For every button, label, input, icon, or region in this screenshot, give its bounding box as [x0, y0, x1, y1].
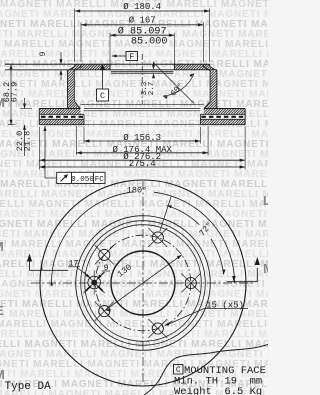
tick for dim 9: [55, 63, 67, 65]
bore circle dia 85: [111, 251, 175, 315]
dim line dia 176.4: [76, 152, 208, 154]
svg-text:2.7: 2.7: [148, 82, 156, 96]
ring outer edge left: [38, 109, 40, 125]
svg-text:F: F: [129, 53, 134, 62]
dim 9 lower stem: [60, 72, 62, 80]
svg-text:85.000: 85.000: [131, 37, 168, 48]
leader 15x5: [167, 309, 205, 326]
svg-text:FC: FC: [95, 176, 105, 184]
svg-text:130: 130: [116, 262, 134, 279]
svg-text:M: M: [0, 367, 5, 382]
runout symbol: [61, 175, 68, 182]
section centerline: [141, 54, 143, 104]
svg-text:Ø 156.3: Ø 156.3: [123, 133, 161, 143]
hatch ring top plate left: [40, 109, 41, 110]
ring bottom face left: [39, 124, 84, 126]
svg-text:Ø 167: Ø 167: [129, 16, 156, 26]
ext dia156.3 right: [199, 127, 201, 144]
leader 17: [77, 268, 88, 277]
datum box C: [97, 89, 109, 101]
vertical centerline: [142, 181, 144, 384]
dim line dia 156.3: [84, 140, 200, 142]
dim arc 72deg: [211, 239, 224, 275]
hat wall outer left: [68, 64, 75, 108]
tick 22 top: [20, 108, 32, 110]
svg-text:60°: 60°: [169, 82, 185, 99]
vent top left: [39, 113, 84, 115]
ext dia176.4 left: [75, 126, 77, 155]
svg-text:Type DA: Type DA: [5, 381, 52, 393]
hatch hat wall right: [210, 71, 211, 72]
svg-text:Ø 180.4: Ø 180.4: [123, 2, 161, 12]
horizontal centerline: [31, 282, 255, 284]
svg-text:L: L: [263, 193, 268, 208]
dim 3.3 upper stem: [153, 62, 155, 65]
hatch ring bottom plate left: [40, 120, 41, 121]
svg-text:15 (x5): 15 (x5): [206, 301, 244, 311]
ext line 72deg from bolt hole: [160, 197, 171, 232]
vent bottom left: [39, 118, 84, 120]
ring bottom face right: [200, 124, 245, 126]
hatch ring top plate right: [204, 109, 205, 110]
vent inner edge left: [83, 114, 85, 124]
section arrow left: [29, 261, 31, 270]
hatch ring bottom plate right: [200, 120, 201, 121]
vent top right: [200, 113, 245, 115]
far-side hat foot edge: [81, 103, 204, 105]
svg-text:M: M: [0, 239, 4, 254]
far-side edge line 1: [111, 71, 173, 73]
ext dia176.4 right: [207, 126, 209, 155]
underline 17: [68, 266, 80, 268]
dim 22 lower stem: [24, 125, 26, 156]
bore left edge (dia 85): [109, 64, 111, 70]
dim line dia 167: [81, 24, 203, 26]
svg-text:21.8: 21.8: [23, 131, 33, 151]
ext line dia 180.4 left: [74, 9, 76, 63]
dim line 275.4: [39, 166, 245, 168]
locating hole dia 9 with dia 17 spotface: [88, 276, 101, 289]
dim line dia 180.4: [75, 10, 210, 12]
vent ribs right: [201, 116, 243, 118]
svg-text:67.9: 67.9: [10, 82, 20, 102]
bore right edge (dia 85): [173, 64, 175, 70]
svg-text:C: C: [176, 366, 181, 375]
mounting face note cloud: [144, 345, 269, 395]
hat wall inner left: [74, 64, 81, 108]
datum box C in note: [174, 365, 184, 375]
dim line 68.2: [10, 64, 12, 125]
bolt circle dia 130: [95, 235, 191, 331]
ring top face right: [204, 108, 245, 110]
ext dia276 right: [244, 127, 246, 170]
dim line dia 85.097: [110, 34, 174, 36]
leader 9: [99, 272, 105, 278]
bolt hole 1 dia 15: [185, 277, 196, 288]
section arrow right: [256, 268, 258, 282]
hat plate bottom line: [5, 69, 217, 71]
far-side ring bottom edge: [84, 124, 200, 126]
bolt hole 2 dia 15: [152, 232, 163, 243]
ext dia156.3 left: [83, 127, 85, 144]
circle dia 244 (180deg dim arc circle), gap at top for label: [51, 192, 234, 283]
60deg chamfer extension line: [153, 62, 194, 103]
datum flag F: [126, 52, 138, 61]
svg-text:9: 9: [39, 51, 48, 56]
bolt hole 4 dia 15: [99, 306, 110, 317]
svg-text:E: E: [0, 303, 4, 318]
far-side edge line 2: [111, 72, 173, 74]
dim 22 upper stem: [24, 98, 26, 109]
arrow 180 right: [232, 276, 235, 282]
outer circle dia 276.2: [40, 180, 246, 386]
ring outer edge right: [244, 109, 246, 125]
hatch hat plate right: [174, 64, 175, 65]
hatch hat wall left: [68, 71, 69, 72]
60deg dim arc: [163, 74, 194, 97]
far-side ring inner top edge: [84, 110, 200, 112]
FCF leader stem: [44, 126, 46, 178]
dim dia 130 line: [106, 255, 182, 310]
underline 9: [102, 270, 110, 272]
leader datum C: [102, 70, 104, 89]
vent inner edge right: [199, 114, 201, 124]
hatch hat plate left: [68, 69, 70, 71]
svg-text:M: M: [263, 261, 268, 276]
feature control frame runout 0.050 FC: [57, 172, 105, 183]
dim 9 upper stem: [60, 52, 62, 62]
underline 15x5: [204, 308, 248, 310]
hat wall outer right: [210, 64, 217, 108]
vent bottom right: [200, 118, 245, 120]
vent ribs left: [41, 116, 83, 118]
hat circle dia 180.4: [76, 216, 211, 351]
ext line dia 180.4 right: [209, 9, 211, 63]
ext line dia 167 left: [80, 22, 82, 62]
svg-text:9: 9: [103, 263, 108, 273]
svg-text:M: M: [0, 95, 5, 110]
ring top face left: [39, 108, 80, 110]
svg-text:C: C: [100, 91, 105, 101]
tick 68.2 bottom: [8, 124, 15, 126]
hat wall inner right: [203, 64, 210, 108]
svg-text:180°: 180°: [127, 186, 147, 196]
svg-text:Weight 6.5 Kg: Weight 6.5 Kg: [174, 386, 262, 395]
ext line dia 85 right: [173, 33, 175, 64]
dim line dia 276.2: [39, 159, 245, 161]
circle dia 156.3: [85, 225, 202, 342]
svg-text:275.4: 275.4: [129, 159, 156, 169]
leader datum F: [112, 55, 126, 57]
ext line dia 85 left: [109, 33, 111, 64]
bolt hole 3 dia 15: [99, 249, 110, 260]
arrow 180 left: [50, 281, 53, 286]
datum C arrow on mounting face: [100, 65, 106, 70]
circle dia 167: [81, 221, 206, 346]
arrow on 180 arc right: [232, 276, 235, 282]
bolt hole 5 dia 15: [152, 323, 163, 334]
hat top face / mounting face top line: [5, 63, 210, 65]
ext line dia 167 right: [202, 22, 204, 62]
ext dia276 left: [38, 127, 40, 170]
far-side ring top edge: [84, 108, 200, 110]
svg-text:0.050: 0.050: [71, 176, 94, 184]
dim 3.3 lower stem: [153, 75, 155, 78]
